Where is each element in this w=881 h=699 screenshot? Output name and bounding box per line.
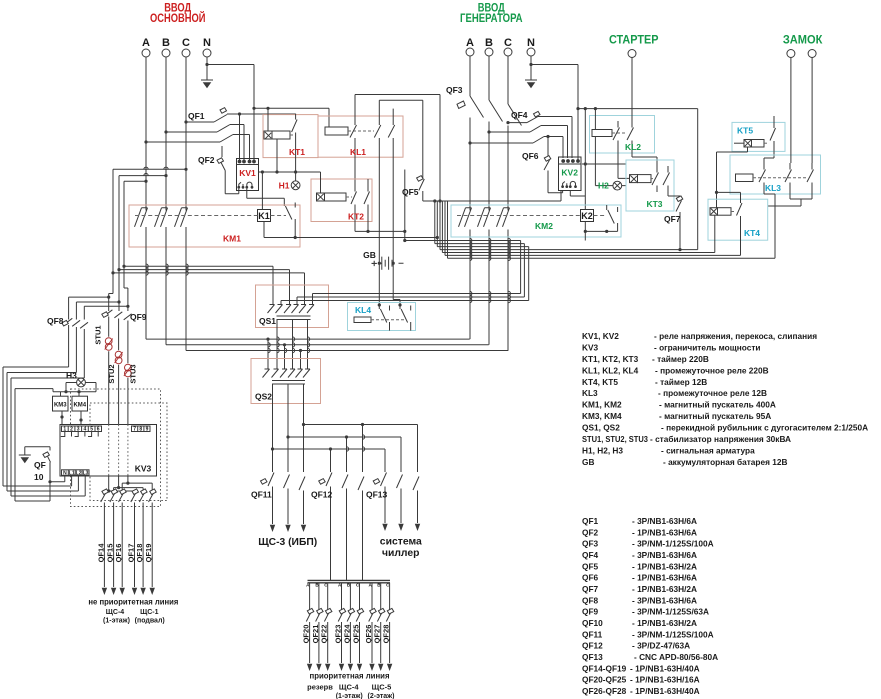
svg-text:- 3P/NB1-63H/6A: - 3P/NB1-63H/6A xyxy=(632,550,697,560)
KT1 dashed xyxy=(290,134,295,136)
KT3 contact 1 xyxy=(652,166,659,192)
svg-text:QF23: QF23 xyxy=(334,625,343,644)
wire KT2 return riser xyxy=(404,170,406,241)
QS1 contact 6 xyxy=(307,305,314,314)
QS1 contact 1 xyxy=(268,305,275,314)
breakers QF20-28 blades xyxy=(306,612,391,663)
svg-text:- таймер 220В: - таймер 220В xyxy=(652,354,709,364)
breaker QF8 xyxy=(64,318,88,328)
band riser 3 xyxy=(436,201,438,247)
wire KV1 output right xyxy=(247,189,284,206)
KV3 pin numbers xyxy=(63,427,149,477)
svg-text:QF12: QF12 xyxy=(582,641,603,651)
svg-text:8: 8 xyxy=(139,427,142,433)
wire KT5 coil down to KT4 xyxy=(717,147,748,208)
svg-text:KT5: KT5 xyxy=(737,126,753,136)
breaker legend xyxy=(582,516,718,696)
KL3 contact 3 xyxy=(807,163,814,189)
svg-text:4: 4 xyxy=(84,427,87,433)
transformer STU3 xyxy=(124,364,132,377)
svg-text:C: C xyxy=(504,37,512,49)
svg-text:QF6: QF6 xyxy=(522,151,539,161)
svg-text:(подвал): (подвал) xyxy=(135,618,165,625)
svg-text:L1: L1 xyxy=(69,470,75,476)
wire QF18 drop xyxy=(142,488,144,493)
bus QF distribution A xyxy=(304,425,418,473)
svg-text:(1-этаж): (1-этаж) xyxy=(336,693,363,699)
KT4 contact xyxy=(717,192,743,227)
svg-text:ЩС-5: ЩС-5 xyxy=(372,683,392,692)
terminal A main xyxy=(142,49,150,57)
svg-text:STU3: STU3 xyxy=(129,364,138,383)
KM2 main contact pole A xyxy=(459,208,472,227)
wire KL2 c2 to KT3 contact xyxy=(632,147,657,166)
wire tap A to left bus xyxy=(124,181,146,266)
svg-text:QF4: QF4 xyxy=(511,110,528,120)
wire QF8 feed 3 xyxy=(84,306,128,319)
timer KT2 box xyxy=(311,179,372,222)
lamp H2 xyxy=(595,185,626,187)
wire N to coils xyxy=(254,108,329,131)
svg-text:- 1P/NB1-63H/6A: - 1P/NB1-63H/6A xyxy=(632,573,697,583)
svg-text:QF3: QF3 xyxy=(446,85,463,95)
bus main A upper xyxy=(124,266,273,304)
wire QF8 out to far left L3 xyxy=(11,378,85,496)
svg-text:QF13: QF13 xyxy=(582,652,603,662)
wire QF4 outputs to KV2 xyxy=(538,117,572,159)
gen bypass line 2 xyxy=(297,297,524,305)
band riser 2 xyxy=(434,201,436,244)
relay KV1 xyxy=(237,159,259,191)
wire battery to KL4 c2 xyxy=(393,263,400,303)
svg-text:KV3: KV3 xyxy=(135,464,152,474)
svg-text:L3: L3 xyxy=(83,470,89,476)
QS2 output C xyxy=(272,384,274,472)
transformer STU1 xyxy=(105,338,113,351)
QS2 crossbar xyxy=(272,381,305,385)
wire KT3 c2 to QF7 xyxy=(668,192,680,201)
wire KT4 coil to band xyxy=(714,215,716,252)
relay KL4 box xyxy=(348,303,416,331)
svg-text:ЩС-4: ЩС-4 xyxy=(339,683,360,692)
wire KL1 c2 bottom to battery xyxy=(378,145,380,264)
svg-text:QS1: QS1 xyxy=(259,316,276,326)
arrows QF14-QF19 xyxy=(102,588,107,595)
wire K1 return line xyxy=(264,237,437,239)
breaker QF13 xyxy=(381,473,420,524)
svg-text:QF: QF xyxy=(34,460,46,470)
wire phase C main vertical xyxy=(185,57,187,211)
terminal B gen xyxy=(485,48,493,56)
KL1 contact 3 xyxy=(388,119,395,145)
gen bypass line 3 xyxy=(281,301,529,305)
band line 2 xyxy=(435,244,525,297)
wire phase C gen xyxy=(507,56,509,351)
wire QF8 out to far left L2 xyxy=(7,373,78,492)
QF12 drops xyxy=(331,425,363,473)
svg-text:KT2: KT2 xyxy=(348,212,364,222)
svg-text:(2-этаж): (2-этаж) xyxy=(368,693,395,699)
svg-text:QF4: QF4 xyxy=(582,550,599,560)
KL1 contact 2 xyxy=(374,119,381,145)
breaker QF6 xyxy=(544,137,563,193)
svg-text:- CNC APD-80/56-80A: - CNC APD-80/56-80A xyxy=(634,652,718,662)
KL3 dashed xyxy=(753,177,806,179)
svg-text:- стабилизатор напряжения 30кВ: - стабилизатор напряжения 30кВА xyxy=(650,434,791,444)
relay KL2 box xyxy=(590,116,655,154)
svg-text:QF10: QF10 xyxy=(582,618,603,628)
svg-text:6: 6 xyxy=(97,427,100,433)
arrows QF13 xyxy=(382,524,387,531)
svg-text:- аккумуляторная батарея 12В: - аккумуляторная батарея 12В xyxy=(663,457,787,467)
svg-text:KL1: KL1 xyxy=(350,147,366,157)
lamp H3 xyxy=(77,378,86,387)
wire KL2 c1 to KT3 coil xyxy=(618,147,630,178)
wire phase A main vertical xyxy=(145,57,147,211)
svg-text:KV1: KV1 xyxy=(239,168,256,178)
contactor KM4 xyxy=(72,396,88,411)
svg-text:- 1P/NB1-63H/2A: - 1P/NB1-63H/2A xyxy=(632,618,697,628)
wire KL1 c3 top stub xyxy=(392,109,394,119)
svg-text:- 3P/NM-1/125S/63A: - 3P/NM-1/125S/63A xyxy=(632,607,709,617)
KT3 coil xyxy=(630,175,638,183)
svg-text:QF5: QF5 xyxy=(582,561,599,571)
svg-text:KM4: KM4 xyxy=(73,403,86,409)
svg-text:QF26-QF28: QF26-QF28 xyxy=(582,686,627,696)
wire KT2 return line xyxy=(355,230,405,232)
KT3 contact 2 xyxy=(663,166,670,192)
KL3 contact 2 xyxy=(785,163,792,189)
wire KV2 bottom to QF5 line xyxy=(423,191,561,202)
wire branch to QF9 pole2 xyxy=(118,270,120,311)
svg-text:- 1P/NB1-63H/6A: - 1P/NB1-63H/6A xyxy=(632,527,697,537)
svg-text:2: 2 xyxy=(70,427,73,433)
timer KT5 box xyxy=(732,122,785,151)
QS1 contact 3 xyxy=(284,305,291,314)
svg-text:H3: H3 xyxy=(66,371,77,381)
svg-text:QF20: QF20 xyxy=(302,625,311,644)
svg-text:STU1, STU2, STU3: STU1, STU2, STU3 xyxy=(582,434,648,444)
svg-text:- реле напряжения, перекоса, с: - реле напряжения, перекоса, слипания xyxy=(654,331,817,341)
svg-text:1: 1 xyxy=(63,427,66,433)
svg-text:B: B xyxy=(485,37,493,49)
svg-text:ЩС-3 (ИБП): ЩС-3 (ИБП) xyxy=(258,536,317,548)
contactor KM3 xyxy=(53,396,69,411)
svg-text:QF24: QF24 xyxy=(342,624,351,644)
svg-text:ЗАМОК: ЗАМОК xyxy=(783,35,823,47)
svg-text:KL2: KL2 xyxy=(625,142,641,152)
KV3 bottom strip N L1 L2 L3 xyxy=(62,470,90,476)
svg-text:- 1P/NB1-63H/16A: - 1P/NB1-63H/16A xyxy=(630,675,700,685)
svg-text:- 1P/NB1-63H/40A: - 1P/NB1-63H/40A xyxy=(630,663,700,673)
svg-text:KM3: KM3 xyxy=(54,403,67,409)
QS2 tap 3 xyxy=(300,351,302,370)
wire branch to QF9 pole1 xyxy=(109,273,113,311)
wire KL2 long vertical to band xyxy=(697,109,699,250)
wire tap C to QF1 xyxy=(186,121,214,123)
QS1 contact 4 xyxy=(292,305,299,314)
wire QF8 feed 1 xyxy=(69,297,109,319)
svg-text:приоритетная линия: приоритетная линия xyxy=(310,672,390,681)
band line 3 xyxy=(437,247,528,301)
KM1 main contact pole C xyxy=(175,208,188,351)
KL1 dashed xyxy=(348,130,374,132)
terminal starter xyxy=(628,50,636,58)
wire tap B to left bus xyxy=(119,176,166,270)
QS2 contact row xyxy=(263,369,311,378)
wire QF4 tap C xyxy=(508,122,527,124)
svg-text:QF26: QF26 xyxy=(364,625,373,644)
breaker QF1 xyxy=(214,115,233,143)
svg-text:QF1: QF1 xyxy=(582,516,599,526)
QS1 contact 5 xyxy=(299,305,306,314)
transformer STU2 xyxy=(115,351,123,364)
wire far left N loop xyxy=(15,389,53,501)
svg-text:H1, H2, H3: H1, H2, H3 xyxy=(582,445,623,455)
svg-text:H1: H1 xyxy=(279,180,290,190)
svg-text:ЩС-4: ЩС-4 xyxy=(106,609,125,616)
terminal N gen xyxy=(527,48,535,56)
wire STU dotted through KV3 xyxy=(109,425,128,477)
breaker QF9 xyxy=(105,310,132,320)
svg-text:не приоритетная линия: не приоритетная линия xyxy=(88,598,178,607)
terminal lock 2 xyxy=(808,50,816,58)
wire QF16-19 feed C xyxy=(122,483,152,492)
svg-text:QF14: QF14 xyxy=(96,543,105,563)
svg-text:C: C xyxy=(182,37,190,49)
svg-text:резерв: резерв xyxy=(307,683,333,692)
breaker QF12 xyxy=(326,473,364,581)
svg-text:- таймер 12В: - таймер 12В xyxy=(655,377,707,387)
wire KL3 bottoms xyxy=(768,189,812,206)
bus lower C xyxy=(186,350,508,352)
svg-text:10: 10 xyxy=(34,472,44,482)
svg-text:KT1: KT1 xyxy=(289,147,305,157)
bus main C upper xyxy=(113,273,305,305)
wire phase B gen xyxy=(488,56,490,345)
KV3 terminal strip 1-6 xyxy=(62,426,102,432)
band line 4 xyxy=(440,249,698,251)
svg-text:QF9: QF9 xyxy=(130,312,147,322)
dotted enclosure D2 xyxy=(90,403,167,501)
MAIN-DRAWING xyxy=(3,49,437,595)
KT5 contact xyxy=(770,116,776,151)
wire phase B main vertical xyxy=(165,57,167,211)
ground main N xyxy=(206,65,208,81)
svg-text:QS2: QS2 xyxy=(255,392,272,402)
KT5 dashed xyxy=(764,142,769,144)
wire KL1 c1 top hook to band xyxy=(355,95,440,250)
wire QF4 tap A xyxy=(470,142,533,144)
KV3 terminal strip 7-9 xyxy=(132,426,151,432)
QS2 output A xyxy=(303,384,305,472)
contactor KM2 box xyxy=(451,205,621,237)
KV3 terminal hooks xyxy=(61,432,98,437)
svg-text:QF20-QF25: QF20-QF25 xyxy=(582,675,627,685)
svg-text:QF5: QF5 xyxy=(402,187,419,197)
KL4 contact 1 xyxy=(379,303,389,331)
dashed link K2 xyxy=(457,215,606,217)
relay KL3 box xyxy=(730,155,821,194)
wire KM3 KM4 to terminals xyxy=(62,411,81,427)
bus lower A from KM1/KM2 xyxy=(146,338,470,340)
svg-text:5: 5 xyxy=(90,427,93,433)
svg-text:STU1: STU1 xyxy=(94,325,103,344)
KT2 contact 2 xyxy=(364,179,370,231)
KM1 aux contact xyxy=(285,203,295,238)
wire battery to KL4 c1 xyxy=(378,263,380,303)
svg-text:GB: GB xyxy=(363,250,376,260)
svg-text:N: N xyxy=(527,37,535,49)
band riser 6 xyxy=(444,201,446,255)
QS2 tap 2 xyxy=(284,345,286,369)
svg-text:N: N xyxy=(63,470,67,476)
wire KV2/N to K2 coil xyxy=(584,109,586,210)
svg-text:QF1: QF1 xyxy=(188,111,205,121)
KT5 coil xyxy=(744,140,752,148)
svg-text:- 1P/NB1-63H/2A: - 1P/NB1-63H/2A xyxy=(632,561,697,571)
svg-text:B: B xyxy=(162,37,170,49)
timer KT3 box xyxy=(626,160,674,211)
svg-text:QF7: QF7 xyxy=(664,214,681,224)
breaker QF2 xyxy=(220,146,239,194)
KM2 main contact pole C xyxy=(497,208,510,227)
wire starter down xyxy=(631,58,633,122)
svg-text:L2: L2 xyxy=(76,470,82,476)
QS2 tap 1 xyxy=(267,339,269,369)
svg-text:KL1, KL2, KL4: KL1, KL2, KL4 xyxy=(582,365,639,375)
band line 5 xyxy=(442,252,714,254)
wire QF8 feed 2 xyxy=(76,302,119,320)
svg-text:СТАРТЕР: СТАРТЕР xyxy=(609,35,659,47)
KT4 coil xyxy=(710,208,718,216)
bus QF distribution C xyxy=(273,449,386,472)
svg-text:- 1P/NB1-63H/40A: - 1P/NB1-63H/40A xyxy=(630,686,700,696)
svg-text:- перекидной рубильник с дугог: - перекидной рубильник с дугогасителем 2… xyxy=(661,423,868,433)
svg-text:(1-этаж): (1-этаж) xyxy=(103,618,130,625)
svg-text:- промежуточное реле 220В: - промежуточное реле 220В xyxy=(655,365,769,375)
svg-text:QF18: QF18 xyxy=(135,544,144,563)
svg-text:QF12: QF12 xyxy=(311,490,333,500)
svg-text:чиллер: чиллер xyxy=(382,547,420,559)
contactor KM1 box xyxy=(129,205,300,247)
svg-text:KT4: KT4 xyxy=(744,228,760,238)
terminal lock 1 xyxy=(787,50,795,58)
breakers QF14-QF19 blades xyxy=(101,493,154,588)
busbar phase letters xyxy=(306,583,390,588)
breaker QF7 xyxy=(676,201,682,250)
KT2 coil xyxy=(317,193,325,201)
svg-text:QF9: QF9 xyxy=(582,607,599,617)
svg-text:- магнитный пускатель 95А: - магнитный пускатель 95А xyxy=(659,411,771,421)
wire QF4 tap B xyxy=(489,131,530,133)
KL2 contact 1 xyxy=(613,121,620,147)
MAIN3 xyxy=(144,48,821,451)
svg-text:STU2: STU2 xyxy=(107,364,116,383)
svg-text:A: A xyxy=(466,37,474,49)
KL4 coil xyxy=(354,317,371,323)
wire QF17 drop xyxy=(134,491,136,493)
ground QF10 xyxy=(24,447,26,455)
svg-text:N: N xyxy=(203,37,211,49)
svg-text:- магнитный пускатель 400А: - магнитный пускатель 400А xyxy=(659,400,776,410)
svg-text:KV1, KV2: KV1, KV2 xyxy=(582,331,619,341)
svg-text:KT1, KT2, KT3: KT1, KT2, KT3 xyxy=(582,354,639,364)
wire KT1 coil bottom drop xyxy=(276,139,278,172)
band riser 7 xyxy=(447,201,449,258)
timer KT4 box xyxy=(708,199,768,240)
svg-text:- 3P/NB1-63H/6A: - 3P/NB1-63H/6A xyxy=(632,595,697,605)
breaker QF11 xyxy=(268,473,305,525)
relay KL1 box xyxy=(318,116,403,157)
band line 1 xyxy=(405,241,521,294)
bus QF distribution B xyxy=(288,437,401,472)
svg-text:QF2: QF2 xyxy=(198,155,215,165)
switchgear QS1 box xyxy=(256,285,329,328)
wire KT4 contact to band xyxy=(740,227,742,255)
wire KL1 c2 top hook to QF5 xyxy=(379,100,423,118)
ground gen N xyxy=(530,65,532,81)
wire KL2 coil to H2 line xyxy=(594,137,596,186)
KT2 contact 1 xyxy=(351,185,357,231)
svg-text:ОСНОВНОЙ: ОСНОВНОЙ xyxy=(150,12,206,25)
svg-text:ЩС-1: ЩС-1 xyxy=(140,609,159,616)
svg-text:QF11: QF11 xyxy=(582,629,603,639)
svg-text:- сигнальная арматура: - сигнальная арматура xyxy=(661,445,755,455)
wire KT5 to KL3 xyxy=(764,151,774,163)
svg-text:KM2: KM2 xyxy=(535,221,553,231)
svg-text:KT3: KT3 xyxy=(646,199,662,209)
svg-text:QF7: QF7 xyxy=(582,584,599,594)
band line 7 xyxy=(448,257,776,259)
svg-text:KM1: KM1 xyxy=(223,234,241,244)
switchgear QS2 box xyxy=(251,359,321,404)
terminal A gen xyxy=(466,48,474,56)
KM1 main contact pole B xyxy=(155,208,168,345)
wire branch to QF9 pole3 xyxy=(124,266,128,311)
KT3 dashed xyxy=(651,178,653,180)
arrows QF11 xyxy=(270,525,275,532)
KL2 contact 2 xyxy=(627,121,634,147)
KL4 dashed xyxy=(371,319,404,321)
svg-text:QF19: QF19 xyxy=(144,544,153,563)
svg-text:система: система xyxy=(380,536,422,548)
bus lower B xyxy=(166,344,489,346)
wire QF1 outputs to KV1 pins xyxy=(227,114,296,162)
svg-text:KT4, KT5: KT4, KT5 xyxy=(582,377,618,387)
svg-text:ГЕНЕРАТОРА: ГЕНЕРАТОРА xyxy=(460,13,523,25)
wire STU outputs down xyxy=(109,351,128,491)
terminal C main xyxy=(182,49,190,57)
dotted enclosure D1 xyxy=(71,389,161,507)
QS2 output B xyxy=(287,384,289,472)
coil K2 xyxy=(581,210,594,222)
band riser 5 xyxy=(441,201,443,253)
breaker QF5 xyxy=(419,100,425,201)
svg-text:- ограничитель мощности: - ограничитель мощности xyxy=(654,342,761,352)
KL1 contact 1 xyxy=(350,119,357,145)
wire phase A gen xyxy=(469,56,471,339)
breaker QF3 xyxy=(470,96,522,126)
wire N main xyxy=(207,57,254,162)
svg-text:KV2: KV2 xyxy=(561,168,578,178)
timer KT1 box xyxy=(263,115,318,158)
svg-text:- 3P/DZ-47/63A: - 3P/DZ-47/63A xyxy=(632,641,690,651)
breaker QF10 xyxy=(25,447,65,482)
wire QF19 drop xyxy=(151,483,153,492)
KL3 contact 1 xyxy=(759,163,766,189)
wire tap A to QF1 xyxy=(146,141,220,143)
